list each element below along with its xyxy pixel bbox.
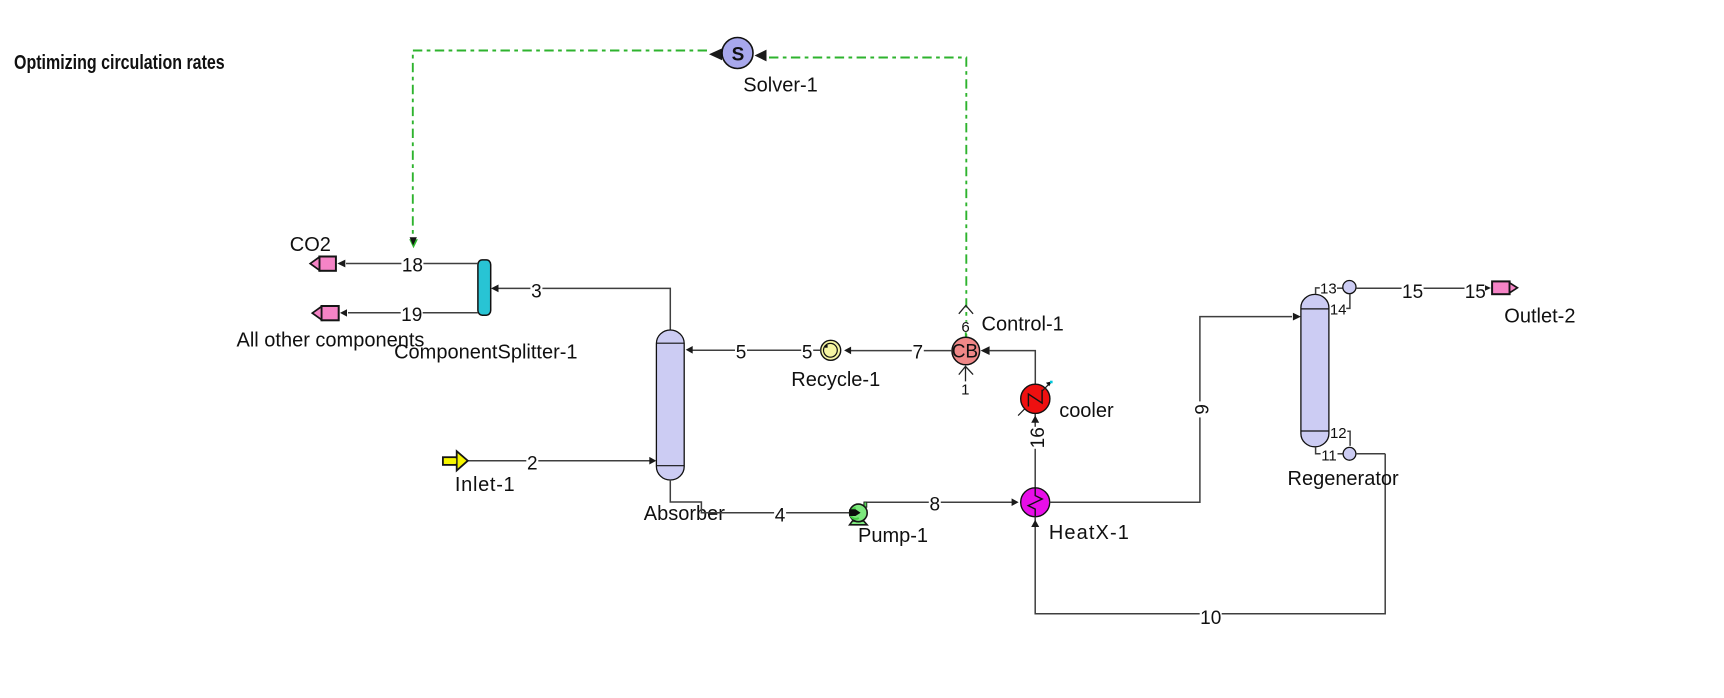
- solver U1 circle: [722, 38, 753, 69]
- svg-text:Absorber: Absorber: [644, 503, 725, 525]
- svg-text:7: 7: [913, 343, 924, 364]
- svg-text:2: 2: [527, 454, 538, 475]
- svg-text:18: 18: [402, 256, 423, 277]
- wire stream 5: [691, 349, 821, 351]
- wire stream 7: [851, 350, 952, 352]
- arrowhead into recycle: [844, 347, 851, 355]
- arrowhead into cooler bottom: [1031, 416, 1039, 423]
- label 7: [912, 343, 924, 364]
- cooler diagonal arrowhead: [1046, 381, 1052, 386]
- svg-text:8: 8: [930, 495, 941, 516]
- port 14 bracket: [1346, 294, 1350, 309]
- svg-text:cooler: cooler: [1059, 400, 1114, 422]
- svg-text:Solver-1: Solver-1: [743, 75, 817, 97]
- svg-text:5: 5: [736, 343, 747, 364]
- svg-text:4: 4: [775, 506, 786, 527]
- port 11 bracket: [1316, 447, 1321, 454]
- arrowhead into regenerator: [1293, 313, 1301, 321]
- label 16 rotated: [1028, 427, 1049, 449]
- svg-text:10: 10: [1200, 608, 1221, 629]
- control block C1 circle: [952, 337, 980, 365]
- label 19: [401, 305, 423, 326]
- arrowhead into CO2 sink: [337, 260, 345, 268]
- svg-text:Optimizing circulation rates: Optimizing circulation rates: [14, 51, 225, 73]
- svg-text:HeatX-1: HeatX-1: [1049, 522, 1130, 544]
- absorber bottom line: [656, 465, 684, 467]
- heatx zigzag glyph: [1028, 488, 1042, 517]
- svg-text:15: 15: [1402, 282, 1423, 303]
- wire stream 8: [867, 501, 1012, 503]
- solver arrowhead right: [755, 50, 767, 62]
- svg-text:15: 15: [1465, 282, 1486, 303]
- svg-text:9: 9: [1192, 404, 1213, 415]
- wire heatx bottom stream 10 riser: [1035, 454, 1385, 614]
- svg-text:6: 6: [961, 319, 969, 336]
- regenerator top line: [1301, 308, 1329, 310]
- svg-text:Inlet-1: Inlet-1: [455, 474, 516, 496]
- svg-text:CO2: CO2: [290, 234, 331, 256]
- arrowhead into other sink: [340, 309, 347, 316]
- inlet-1 feed arrow: [443, 451, 468, 470]
- arrowhead into absorber top right: [686, 346, 693, 354]
- wire stream 3: [498, 288, 670, 330]
- svg-text:All other components: All other components: [237, 330, 425, 352]
- svg-text:Outlet-2: Outlet-2: [1504, 306, 1575, 328]
- absorber column: [656, 330, 684, 480]
- label 10: [1200, 608, 1222, 629]
- green arrow down at stream 18: [409, 239, 418, 248]
- label 9 rotated: [1192, 401, 1213, 417]
- arrowhead into splitter: [491, 285, 499, 293]
- svg-text:Recycle-1: Recycle-1: [791, 369, 880, 391]
- label 4: [774, 506, 786, 527]
- regenerator column: [1301, 294, 1329, 446]
- recycle inner circle: [824, 343, 838, 357]
- wire stream 18: [346, 263, 478, 265]
- svg-text:CB: CB: [952, 342, 978, 363]
- port 13 bracket: [1316, 288, 1320, 294]
- other components sink arrow: [312, 306, 338, 320]
- wire 11 to reboiler: [1338, 453, 1344, 455]
- svg-text:14: 14: [1330, 302, 1347, 319]
- label 18: [401, 256, 423, 277]
- svg-text:Pump-1: Pump-1: [858, 525, 928, 547]
- reboiler circle: [1343, 447, 1356, 460]
- svg-text:16: 16: [1028, 427, 1049, 448]
- green signal wire solver to stream 18: [413, 51, 707, 239]
- solver arrowhead left: [709, 48, 722, 60]
- wire reboiler out: [1356, 453, 1385, 455]
- chevron arrow 6: [959, 306, 973, 314]
- chevron arrow 1 below control: [959, 366, 973, 381]
- svg-text:Control-1: Control-1: [982, 314, 1064, 336]
- wire stream 16 heatx to cooler: [1034, 413, 1036, 487]
- label 5 near recycle: [801, 343, 813, 364]
- cooler E1 circle: [1021, 384, 1050, 413]
- heatx HX1 circle: [1021, 488, 1050, 517]
- svg-text:11: 11: [1321, 448, 1337, 465]
- label 6: [961, 319, 970, 336]
- CO2 sink arrow: [310, 257, 336, 271]
- wire stream 15: [1356, 287, 1465, 289]
- cooler N glyph: [1028, 390, 1042, 407]
- condenser circle: [1343, 281, 1356, 294]
- wire stream 2: [468, 460, 651, 462]
- svg-text:19: 19: [401, 305, 422, 326]
- recycle R1 outer circle: [821, 340, 841, 360]
- label 2: [526, 454, 538, 475]
- arrowhead into control right: [981, 346, 990, 355]
- component splitter bar: [478, 260, 491, 315]
- label 3: [530, 281, 542, 302]
- svg-text:5: 5: [802, 343, 813, 364]
- cooler diagonal utility line upper part: [1043, 382, 1051, 390]
- wire 13 to condenser: [1337, 287, 1343, 289]
- label 8: [929, 495, 941, 516]
- svg-text:Regenerator: Regenerator: [1288, 468, 1400, 490]
- green signal wire control to solver: [769, 58, 966, 339]
- arrowhead into absorber bottom left: [649, 457, 656, 465]
- wire absorber bottom to pump: [670, 480, 849, 513]
- cooler diagonal utility line lower part: [1018, 404, 1030, 416]
- pump P1: [849, 502, 867, 525]
- wire stream 19: [348, 312, 478, 314]
- label 5 mid: [735, 343, 747, 364]
- svg-text:1: 1: [961, 381, 969, 398]
- absorber top line: [656, 342, 684, 344]
- wire control to cooler: [990, 351, 1036, 384]
- port 12 bracket: [1347, 431, 1350, 446]
- label 15 mid: [1402, 282, 1424, 303]
- green solid stub above control: [965, 331, 967, 339]
- regenerator bottom line: [1301, 430, 1329, 432]
- arrowhead into heatx left: [1012, 498, 1019, 506]
- svg-text:13: 13: [1320, 281, 1337, 298]
- wire stream 9 heatx to regenerator: [1050, 317, 1292, 503]
- outlet-2 product arrow: [1492, 281, 1517, 294]
- svg-text:12: 12: [1330, 425, 1347, 442]
- arrowhead before outlet: [1485, 285, 1491, 291]
- arrowhead into heatx bottom: [1031, 520, 1039, 527]
- recycle dot: [825, 345, 828, 348]
- svg-text:S: S: [732, 44, 745, 65]
- cooler cyan tip: [1050, 381, 1053, 384]
- svg-text:3: 3: [531, 281, 542, 302]
